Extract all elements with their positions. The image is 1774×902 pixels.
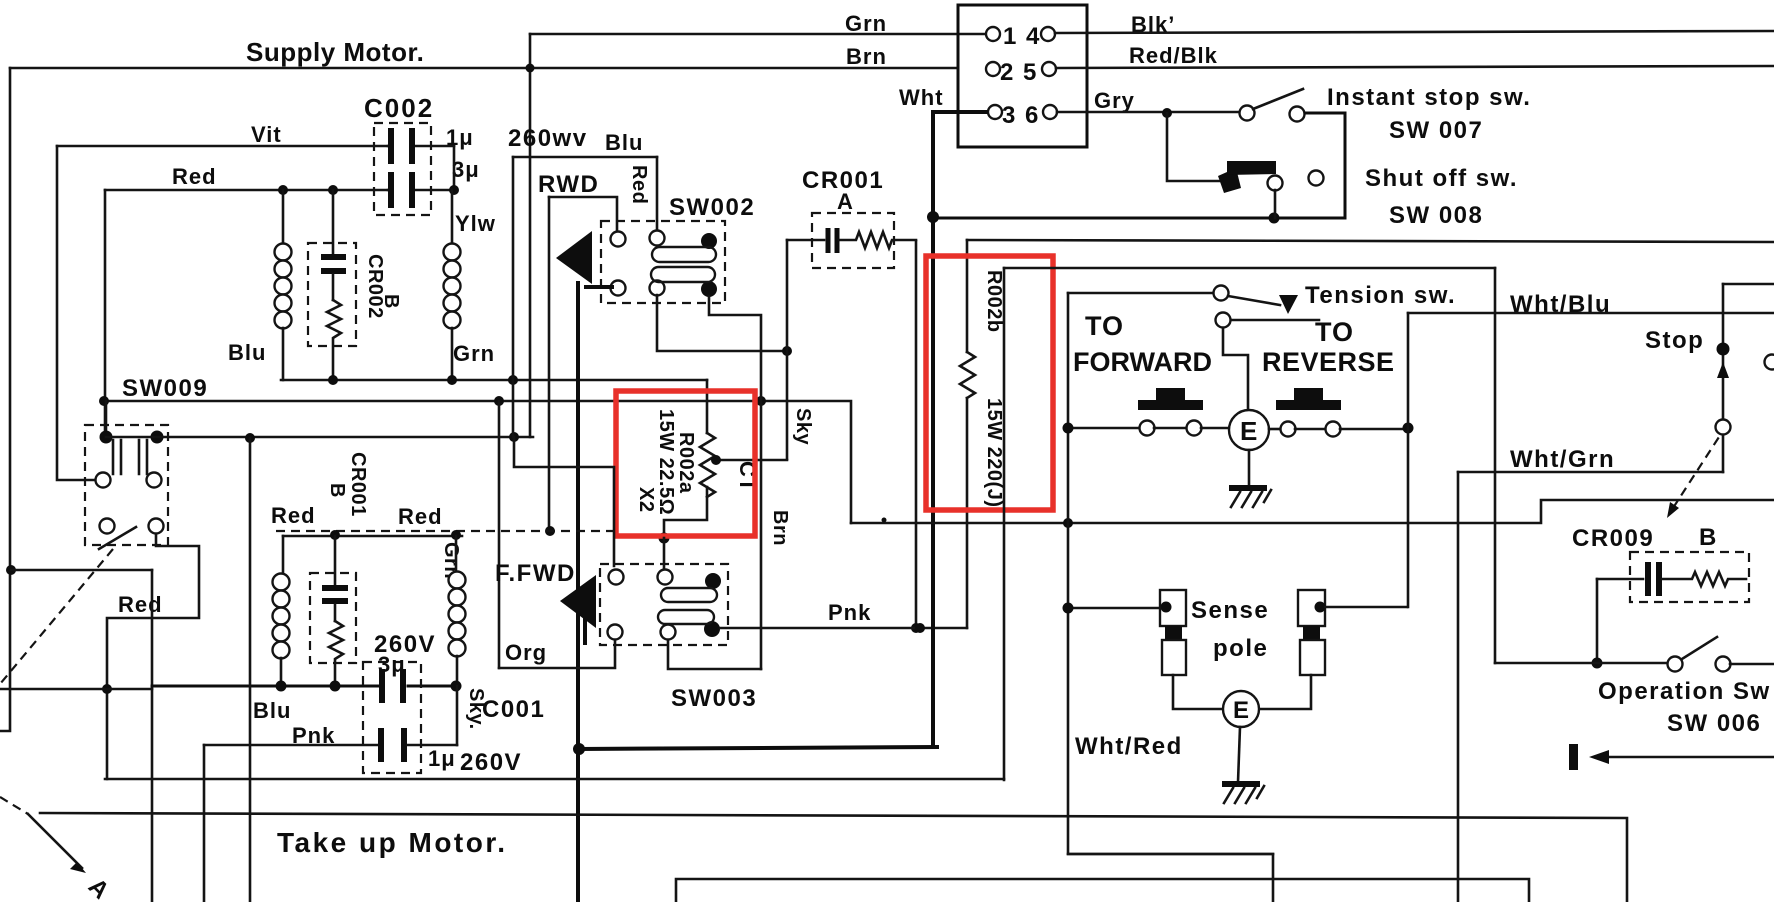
svg-text:15W 22.5Ω: 15W 22.5Ω [655, 409, 677, 515]
node Red/C002 junction [449, 185, 459, 195]
svg-text:Vit: Vit [251, 122, 282, 147]
node SW008 stem [1269, 213, 1280, 224]
svg-text:Grn: Grn [453, 341, 495, 366]
svg-text:Wht/Grn: Wht/Grn [1510, 446, 1615, 473]
node Grn coil top [451, 530, 461, 540]
ground sense motor [1238, 727, 1240, 782]
svg-text:Wht: Wht [899, 85, 944, 110]
circle right edge partial [1765, 355, 1774, 370]
arrow I pointer [1569, 744, 1578, 770]
switch stop contact [1716, 420, 1731, 435]
node 260wv bracket bottom [509, 432, 519, 442]
svg-text:15W 220(J): 15W 220(J) [983, 398, 1005, 508]
wire y780 long [105, 778, 1004, 781]
svg-text:X2: X2 [635, 487, 657, 512]
node thick link left [573, 743, 585, 755]
wire SW007/008 common bottom thick [933, 217, 1345, 220]
node CR takeup top [330, 530, 340, 540]
svg-text:Red: Red [398, 504, 443, 529]
node stray speck [882, 518, 887, 523]
resistor R002a [706, 380, 709, 433]
wire Org riser x499 [498, 401, 501, 668]
node y689 junction [102, 684, 112, 694]
wire CT tap [716, 459, 787, 462]
svg-text:2 5: 2 5 [1000, 59, 1038, 86]
node Grn coil bottom [447, 375, 457, 385]
node SW009 takeup branch [245, 433, 255, 443]
svg-text:B: B [380, 294, 402, 309]
node Red/Blu-coil junction [278, 185, 288, 195]
node Stop [1717, 343, 1730, 356]
node Sky junction [782, 346, 792, 356]
dashed pointer diagonal from SW009 [0, 549, 113, 684]
wire CR001 right leg down [915, 241, 918, 628]
svg-text:Supply Motor.: Supply Motor. [246, 37, 424, 67]
svg-text:3μ: 3μ [378, 652, 406, 677]
svg-text:Operation Sw: Operation Sw [1598, 678, 1771, 705]
wire Red vertical to SW009 [104, 190, 107, 430]
wire SW009 contact y437 [106, 436, 533, 439]
svg-text:F.FWD: F.FWD [495, 560, 576, 587]
pushbutton reverse [1276, 388, 1341, 410]
node RWD leg on dashed line [545, 526, 555, 536]
node Brn branch [756, 396, 766, 406]
svg-text:Sky.: Sky. [465, 688, 487, 730]
red highlight box R002a [616, 391, 755, 536]
node Wht/SW007 branch [927, 211, 939, 223]
wire y854 [1068, 853, 1273, 856]
svg-text:Sky: Sky [792, 408, 814, 445]
sense pole right [1298, 590, 1325, 626]
node left border / y570 junction [6, 565, 16, 575]
node R002a bottom [659, 533, 670, 544]
svg-text:RWD: RWD [538, 171, 599, 198]
node 260wv left vertical bottom [508, 375, 518, 385]
svg-text:Instant stop sw.: Instant stop sw. [1327, 84, 1531, 111]
wire inner box bottom [676, 879, 1529, 902]
svg-text:Red/Blk: Red/Blk [1129, 43, 1218, 68]
svg-text:Wht/Red: Wht/Red [1075, 733, 1183, 760]
svg-text:C002: C002 [364, 93, 434, 123]
svg-text:Blu: Blu [253, 698, 291, 723]
node CR001 leg on Pnk wire [911, 623, 921, 633]
svg-text:SW009: SW009 [122, 375, 208, 402]
connector block [958, 5, 1087, 147]
svg-text:FORWARD: FORWARD [1073, 347, 1212, 377]
inductor takeup left winding [282, 536, 285, 575]
node box left bottom [1063, 518, 1073, 528]
svg-text:Pnk: Pnk [828, 600, 871, 625]
wire thick RWD vertical [576, 283, 580, 902]
svg-text:Red: Red [172, 164, 217, 189]
wire x152 vertical [151, 570, 154, 902]
svg-text:TO: TO [1085, 311, 1124, 341]
svg-text:pole: pole [1213, 635, 1268, 662]
wire motor row y428 [1068, 427, 1140, 430]
node Grn/Brn cross [526, 64, 535, 73]
wire R002a to SW003 middle [663, 538, 666, 569]
svg-text:E: E [1233, 697, 1251, 724]
svg-text:Ylw: Ylw [455, 211, 496, 236]
wire supply common y380 [281, 379, 707, 382]
svg-text:Red: Red [118, 592, 163, 617]
svg-text:Blu: Blu [228, 340, 266, 365]
svg-text:REVERSE: REVERSE [1262, 347, 1395, 377]
svg-text:R002a: R002a [675, 432, 697, 494]
dashed wire y531 [276, 530, 614, 532]
svg-text:Blu: Blu [605, 130, 643, 155]
svg-text:SW002: SW002 [669, 194, 755, 221]
wire CR009 leg [1596, 579, 1599, 663]
svg-text:Red: Red [628, 165, 650, 204]
svg-text:SW 006: SW 006 [1667, 710, 1761, 737]
svg-text:B: B [326, 483, 348, 498]
motor E tension [1229, 410, 1269, 450]
wire SW002 A-path to Sky [657, 295, 787, 351]
node Gry/SW008 branch [1162, 108, 1172, 118]
svg-text:Shut off sw.: Shut off sw. [1365, 165, 1518, 192]
wire RWD bracket [549, 197, 617, 231]
svg-text:CR002: CR002 [364, 254, 386, 319]
wire box left x1068 [1068, 293, 1273, 902]
svg-text:260wv: 260wv [508, 125, 588, 152]
svg-text:Tension sw.: Tension sw. [1305, 282, 1456, 309]
arrow up on stop line [1717, 362, 1729, 378]
svg-text:Stop: Stop [1645, 327, 1704, 354]
pushbutton forward [1138, 388, 1203, 410]
node CR002 bottom [328, 375, 338, 385]
svg-text:R002b: R002b [983, 270, 1005, 333]
wire 260wv bracket [513, 156, 657, 159]
wire y469 SW003 left feed [514, 437, 614, 566]
dashed pointer A arrow [0, 797, 28, 814]
switch SW009 [85, 425, 168, 545]
wire box right x1495 [1494, 268, 1497, 663]
arrow F.FWD black [560, 575, 596, 628]
svg-text:SW 008: SW 008 [1389, 202, 1483, 229]
svg-text:1μ: 1μ [428, 746, 456, 771]
wire thick bottom link [579, 747, 937, 749]
svg-text:A: A [83, 873, 115, 902]
svg-text:3 6: 3 6 [1002, 102, 1040, 129]
wire Red takeup y536 [283, 535, 462, 538]
wire y689 thin [0, 688, 152, 691]
wire Pnk vertical x204 [203, 745, 206, 902]
inductor supply Blu winding [282, 190, 285, 245]
wire tension pivot feed y293 [1068, 292, 1213, 295]
svg-text:Red: Red [271, 503, 316, 528]
wire SW003 bottom-left to Org riser [499, 640, 615, 668]
svg-text:3μ: 3μ [452, 157, 480, 182]
svg-text:260V: 260V [460, 749, 522, 776]
svg-text:B: B [1699, 524, 1718, 551]
dashed pointer to CR009 [1673, 437, 1719, 508]
svg-text:1μ: 1μ [446, 125, 474, 150]
svg-text:Gry: Gry [1094, 88, 1135, 113]
wire left border vertical [0, 68, 10, 731]
node Pnk/CR001 junction [915, 623, 925, 633]
node C001 right top [451, 681, 462, 692]
wire left stub y570 [11, 569, 152, 572]
capacitor-resistor CR002 B [308, 243, 356, 346]
svg-text:Sense: Sense [1191, 597, 1269, 624]
svg-text:SW003: SW003 [671, 685, 757, 712]
node Red/CR002 junction [328, 185, 338, 195]
resistor R002b [966, 240, 969, 352]
svg-text:Take up Motor.: Take up Motor. [277, 827, 508, 858]
wire Brn border top [10, 67, 958, 70]
red highlight box R002b [926, 256, 1053, 510]
wire x1408 vertical [1407, 313, 1410, 607]
wire x1004 vertical to y780 [1003, 268, 1006, 780]
wire takeup border y813 [40, 813, 1627, 902]
node CR takeup bottom [330, 681, 341, 692]
svg-text:A: A [837, 189, 854, 214]
motor E sense [1173, 675, 1223, 709]
svg-text:Org: Org [505, 640, 547, 665]
wire SW009 takeup vertical x250 [249, 438, 252, 902]
svg-text:1 4: 1 4 [1003, 23, 1041, 50]
capacitor-resistor CR takeup [310, 573, 356, 663]
node Org branch [494, 396, 504, 406]
wire supply line y523 step [851, 500, 1774, 523]
wire top right corner box [1723, 283, 1774, 286]
wire SW003 bottom-mid to Brn [668, 640, 761, 669]
wire box top y268 [1004, 267, 1495, 270]
wire Sky vertical [786, 240, 789, 459]
sense pole left [1160, 590, 1186, 626]
capacitor C001 [363, 662, 421, 773]
svg-text:TO: TO [1315, 317, 1354, 347]
svg-text:SW 007: SW 007 [1389, 117, 1483, 144]
wire C002 right join [453, 146, 456, 190]
svg-text:E: E [1240, 416, 1259, 446]
wire long y240 to right edge [967, 240, 1774, 242]
wire Vit vertical to SW009 [57, 146, 94, 480]
wire C001 right side [456, 686, 459, 745]
svg-text:CR009: CR009 [1572, 525, 1654, 552]
svg-text:Brn: Brn [769, 510, 791, 546]
wire SW009 lower contact to Red step [107, 534, 199, 779]
svg-text:Grn: Grn [845, 11, 887, 36]
wire x1458 vertical [1457, 472, 1460, 902]
node SW009 wire left [99, 396, 109, 406]
ground tension motor [1248, 450, 1251, 487]
arrow RWD black [556, 231, 592, 284]
wire Grn vertical x530 [529, 34, 532, 437]
svg-text:Brn: Brn [846, 44, 887, 69]
wire SW009 upper y401 [103, 401, 851, 523]
svg-text:CR001: CR001 [347, 452, 369, 517]
svg-text:C001: C001 [482, 696, 545, 723]
switch SW002 [601, 221, 725, 303]
node takeup coil bottom [276, 681, 287, 692]
wire SW002 common to Brn [709, 296, 761, 669]
